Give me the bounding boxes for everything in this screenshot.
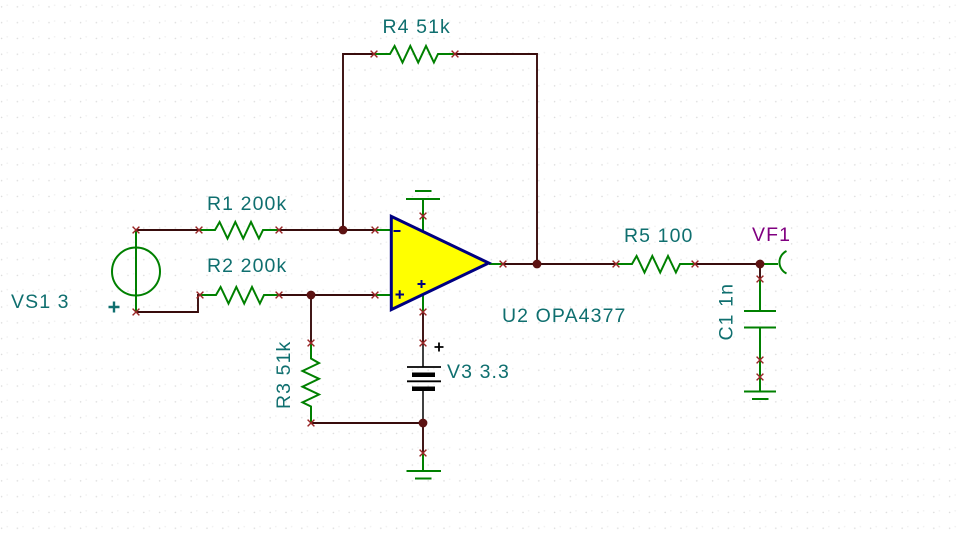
resistor R2 bbox=[197, 287, 283, 304]
voltage probe VF1 bbox=[764, 251, 787, 274]
svg-text:R5 100: R5 100 bbox=[624, 225, 693, 247]
wire: VS1 top to R1 left bbox=[136, 229, 199, 231]
resistor R1 bbox=[196, 222, 283, 239]
svg-text:R4 51k: R4 51k bbox=[383, 16, 451, 38]
wire: R5 right to output node VF1 bbox=[695, 263, 760, 265]
svg-text:VS1 3: VS1 3 bbox=[11, 291, 70, 313]
junction output node VF1 (R5 / probe / C1) bbox=[756, 260, 765, 269]
wire: node B down to R3 top bbox=[310, 295, 312, 343]
resistor R4 bbox=[371, 46, 459, 63]
svg-text:R2 200k: R2 200k bbox=[207, 255, 287, 277]
battery V3 bbox=[407, 340, 444, 423]
resistor R3 bbox=[303, 340, 320, 427]
resistor R5 bbox=[613, 256, 699, 273]
wire: R4 right down to output node bbox=[455, 54, 537, 264]
svg-text:C1 1n: C1 1n bbox=[716, 283, 738, 341]
wire: node C down to ground pin bbox=[422, 423, 424, 453]
wire: op-amp output to R5 left bbox=[503, 263, 616, 265]
ground (op-amp V- supply, above U2) bbox=[406, 191, 440, 216]
svg-text:VF1: VF1 bbox=[752, 224, 791, 246]
wire: R1 right through node A to op-amp inverting input bbox=[279, 229, 375, 231]
wire: R2 right through node B to op-amp non-inverting input bbox=[279, 294, 375, 296]
capacitor C1 bbox=[744, 276, 776, 376]
junction node C (battery / R3 / ground) bbox=[419, 419, 428, 428]
op-amp U2 bbox=[372, 213, 507, 316]
wire: output node down to C1 top pin bbox=[759, 264, 761, 279]
wire: node A up to R4 left (feedback) bbox=[343, 54, 374, 230]
svg-text:R1 200k: R1 200k bbox=[207, 193, 287, 215]
svg-text:U2 OPA4377: U2 OPA4377 bbox=[502, 305, 626, 327]
wire: VS1 bottom up to R2 left bbox=[136, 295, 200, 312]
junction output node (R4 / op-amp out / R5) bbox=[533, 260, 542, 269]
wire: R3 bottom to node C bbox=[311, 422, 423, 424]
voltage source VS1 bbox=[109, 227, 161, 316]
wire: op-amp V+ pin down to battery V3 top bbox=[422, 312, 424, 343]
junction node A (feedback / R1 / inverting input) bbox=[339, 226, 348, 235]
ground (battery negative / R3 node) bbox=[407, 450, 442, 479]
svg-text:V3 3.3: V3 3.3 bbox=[447, 361, 510, 383]
svg-text:R3 51k: R3 51k bbox=[273, 341, 295, 409]
ground (below C1) bbox=[744, 374, 776, 399]
junction node B (R2 / R3 / non-inverting input) bbox=[307, 291, 316, 300]
